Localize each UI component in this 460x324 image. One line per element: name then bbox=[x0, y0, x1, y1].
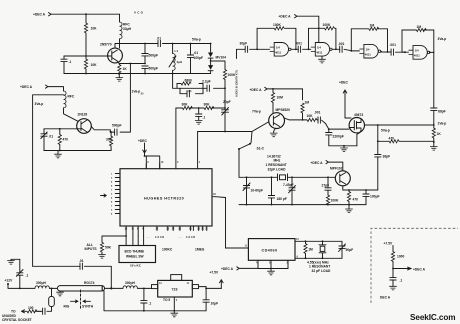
svg-text:470: 470 bbox=[353, 198, 359, 202]
svg-text:180 pF: 180 pF bbox=[277, 197, 287, 201]
svg-text:33μH: 33μH bbox=[123, 27, 132, 31]
svg-text:4011: 4011 bbox=[316, 51, 323, 55]
svg-text:5Va-p: 5Va-p bbox=[192, 38, 201, 42]
svg-text:300μH: 300μH bbox=[36, 281, 47, 285]
svg-text:4: 4 bbox=[199, 161, 201, 164]
svg-text:L1: L1 bbox=[175, 49, 179, 53]
svg-text:+7.5V: +7.5V bbox=[384, 242, 394, 246]
svg-text:6800: 6800 bbox=[185, 79, 193, 83]
svg-text:30K: 30K bbox=[106, 138, 113, 142]
svg-text:3Va-p: 3Va-p bbox=[438, 37, 447, 41]
svg-text:1: 1 bbox=[111, 174, 113, 176]
svg-text:4011: 4011 bbox=[275, 51, 282, 55]
svg-text:8: 8 bbox=[111, 202, 113, 204]
svg-text:RFC: RFC bbox=[68, 95, 75, 99]
svg-text:3Va-p: 3Va-p bbox=[35, 102, 44, 106]
svg-text:+DEC A: +DEC A bbox=[20, 85, 33, 89]
svg-text:1 2 4 8: 1 2 4 8 bbox=[186, 235, 195, 239]
svg-text:1: 1 bbox=[111, 190, 113, 192]
svg-text:24: 24 bbox=[172, 228, 175, 231]
svg-text:300μH: 300μH bbox=[125, 281, 136, 285]
svg-text:100K: 100K bbox=[273, 23, 282, 27]
svg-text:22: 22 bbox=[156, 228, 159, 231]
svg-text:+DEC A: +DEC A bbox=[311, 161, 324, 165]
svg-text:1/4: 1/4 bbox=[415, 49, 419, 53]
svg-text:3: 3 bbox=[177, 161, 179, 164]
svg-text:1: 1 bbox=[111, 206, 113, 208]
svg-text:1/4: 1/4 bbox=[366, 48, 370, 52]
svg-text:+DEC: +DEC bbox=[339, 81, 349, 85]
svg-text:4: 4 bbox=[111, 181, 113, 184]
svg-text:5Va-p: 5Va-p bbox=[381, 129, 390, 133]
svg-text:500pF: 500pF bbox=[149, 54, 159, 58]
svg-text:S1-C: S1-C bbox=[257, 147, 265, 151]
svg-text:100μF: 100μF bbox=[370, 195, 380, 199]
svg-text:1Va-p: 1Va-p bbox=[438, 122, 447, 126]
svg-text:.1: .1 bbox=[69, 60, 72, 64]
svg-text:100K: 100K bbox=[331, 199, 340, 203]
svg-text:+DEC A: +DEC A bbox=[33, 13, 46, 17]
svg-text:1M: 1M bbox=[305, 101, 310, 105]
svg-text:2.2μF: 2.2μF bbox=[202, 80, 211, 84]
svg-text:RG174: RG174 bbox=[84, 281, 95, 285]
svg-text:.01: .01 bbox=[188, 89, 193, 93]
svg-text:2N128: 2N128 bbox=[78, 113, 88, 117]
svg-text:20: 20 bbox=[197, 228, 200, 231]
svg-text:16: 16 bbox=[161, 161, 164, 164]
svg-text:RIG: RIG bbox=[64, 305, 70, 309]
svg-text:8: 8 bbox=[111, 186, 113, 188]
svg-text:100KC: 100KC bbox=[162, 248, 173, 252]
svg-text:10's KC: 10's KC bbox=[130, 264, 142, 268]
svg-text:.001: .001 bbox=[314, 111, 321, 115]
svg-text:.1: .1 bbox=[149, 302, 152, 306]
svg-text:MHz: MHz bbox=[274, 159, 281, 163]
svg-text:4: 4 bbox=[111, 213, 113, 216]
svg-text:2200pF: 2200pF bbox=[333, 135, 344, 139]
svg-text:500pF: 500pF bbox=[149, 67, 159, 71]
svg-text:+12V: +12V bbox=[5, 279, 14, 283]
svg-text:.1: .1 bbox=[26, 274, 29, 278]
svg-text:30K: 30K bbox=[204, 103, 211, 107]
svg-text:MPF102: MPF102 bbox=[330, 167, 343, 171]
svg-text:. . .: . . . bbox=[146, 236, 150, 239]
svg-text:2: 2 bbox=[111, 178, 113, 180]
svg-text:.01: .01 bbox=[157, 37, 162, 41]
svg-text:.01: .01 bbox=[49, 135, 54, 139]
svg-text:INPUTS: INPUTS bbox=[85, 247, 98, 251]
svg-text:32 pF LOAD: 32 pF LOAD bbox=[312, 269, 331, 273]
svg-text:+DEC A: +DEC A bbox=[413, 267, 426, 271]
svg-text:7-45pF: 7-45pF bbox=[283, 183, 294, 187]
svg-text:MPS6520: MPS6520 bbox=[276, 108, 291, 112]
svg-text:VCO: VCO bbox=[134, 11, 144, 15]
svg-text:470: 470 bbox=[389, 136, 395, 140]
svg-text:4011: 4011 bbox=[365, 52, 372, 56]
svg-text:1K: 1K bbox=[437, 132, 442, 136]
svg-text:+DEC: +DEC bbox=[138, 139, 148, 143]
svg-text:CD4060: CD4060 bbox=[262, 248, 278, 252]
svg-text:SYNTH: SYNTH bbox=[82, 305, 94, 309]
svg-text:11: 11 bbox=[187, 282, 190, 285]
svg-text:50pF: 50pF bbox=[346, 248, 354, 252]
svg-text:10M: 10M bbox=[277, 96, 284, 100]
svg-text:40673: 40673 bbox=[354, 113, 363, 117]
svg-text:1/4: 1/4 bbox=[276, 46, 280, 50]
svg-text:7Va-p: 7Va-p bbox=[252, 110, 261, 114]
svg-text:HUGHES HCTR320: HUGHES HCTR320 bbox=[144, 196, 184, 200]
svg-text:36pF: 36pF bbox=[383, 155, 391, 159]
svg-text:50K: 50K bbox=[105, 246, 112, 250]
svg-text:1MEG: 1MEG bbox=[195, 248, 205, 252]
svg-text:11: 11 bbox=[131, 228, 134, 231]
svg-text:.001: .001 bbox=[296, 42, 303, 46]
svg-text:32pF LOAD: 32pF LOAD bbox=[268, 167, 287, 171]
svg-text:723: 723 bbox=[172, 287, 178, 291]
svg-text:30K: 30K bbox=[182, 103, 189, 107]
svg-text:10μF: 10μF bbox=[211, 302, 219, 306]
svg-text:10K: 10K bbox=[91, 63, 98, 67]
svg-text:. . .: . . . bbox=[178, 236, 182, 239]
svg-text:4: 4 bbox=[111, 197, 113, 200]
svg-text:.1: .1 bbox=[400, 279, 403, 283]
svg-text:.01: .01 bbox=[194, 51, 199, 55]
svg-text:+DEC A: +DEC A bbox=[250, 88, 263, 92]
svg-text:MV104: MV104 bbox=[216, 56, 227, 60]
svg-text:+DEC A: +DEC A bbox=[221, 267, 234, 271]
svg-text:1K: 1K bbox=[123, 67, 128, 71]
svg-text:CRYSTAL SOCKET: CRYSTAL SOCKET bbox=[2, 318, 32, 322]
svg-text:2N5770: 2N5770 bbox=[100, 43, 112, 47]
svg-text:10-60pF: 10-60pF bbox=[251, 189, 263, 193]
svg-text:21: 21 bbox=[201, 228, 204, 231]
svg-text:1Va-p: 1Va-p bbox=[132, 90, 141, 94]
svg-text:12: 12 bbox=[159, 282, 162, 285]
svg-text:SeekIC.com: SeekIC.com bbox=[410, 313, 455, 322]
svg-text:.1: .1 bbox=[203, 116, 206, 120]
svg-text:4011: 4011 bbox=[414, 54, 421, 58]
svg-text:DEC A: DEC A bbox=[380, 296, 391, 300]
svg-text:9: 9 bbox=[147, 161, 149, 164]
svg-text:+DEC A: +DEC A bbox=[279, 15, 292, 19]
svg-text:1M: 1M bbox=[308, 248, 313, 252]
svg-text:100pF: 100pF bbox=[194, 56, 204, 60]
svg-text:TO 5: TO 5 bbox=[163, 298, 170, 302]
svg-text:AUDIO IN (DEATH KIT): AUDIO IN (DEATH KIT) bbox=[236, 70, 239, 97]
svg-text:100: 100 bbox=[28, 306, 34, 310]
svg-text:16: 16 bbox=[189, 228, 192, 231]
svg-text:23: 23 bbox=[166, 228, 169, 231]
svg-text:470: 470 bbox=[63, 138, 69, 142]
svg-text:10: 10 bbox=[296, 238, 299, 241]
svg-text:80pF: 80pF bbox=[438, 110, 446, 114]
svg-text:10K: 10K bbox=[91, 27, 98, 31]
svg-text:2: 2 bbox=[111, 210, 113, 212]
svg-text:.05: .05 bbox=[140, 93, 144, 96]
svg-text:1M: 1M bbox=[370, 24, 375, 28]
svg-text:.01: .01 bbox=[79, 259, 84, 263]
svg-text:1000: 1000 bbox=[397, 255, 405, 259]
svg-text:27pF: 27pF bbox=[322, 183, 330, 187]
svg-text:18: 18 bbox=[213, 193, 216, 196]
svg-text:500pF: 500pF bbox=[112, 124, 122, 128]
svg-text:1 2 4 8: 1 2 4 8 bbox=[155, 235, 164, 239]
svg-text:+7.5V: +7.5V bbox=[210, 271, 220, 275]
svg-text:BCD THUMB: BCD THUMB bbox=[125, 249, 145, 253]
svg-text:11: 11 bbox=[245, 245, 248, 248]
svg-text:100K: 100K bbox=[323, 23, 332, 27]
svg-text:WHEEL SW: WHEEL SW bbox=[126, 254, 143, 258]
svg-text:1/4: 1/4 bbox=[317, 46, 321, 50]
svg-text:20pF: 20pF bbox=[223, 100, 231, 104]
svg-text:2: 2 bbox=[111, 194, 113, 196]
svg-text:25: 25 bbox=[178, 228, 181, 231]
svg-text:5: 5 bbox=[176, 299, 178, 302]
svg-text:4μH: 4μH bbox=[177, 60, 183, 64]
svg-text:1M: 1M bbox=[417, 25, 422, 29]
svg-text:.001: .001 bbox=[390, 43, 397, 47]
svg-text:.001: .001 bbox=[338, 42, 345, 46]
svg-text:30pF: 30pF bbox=[240, 42, 248, 46]
svg-text:10K: 10K bbox=[307, 114, 314, 118]
